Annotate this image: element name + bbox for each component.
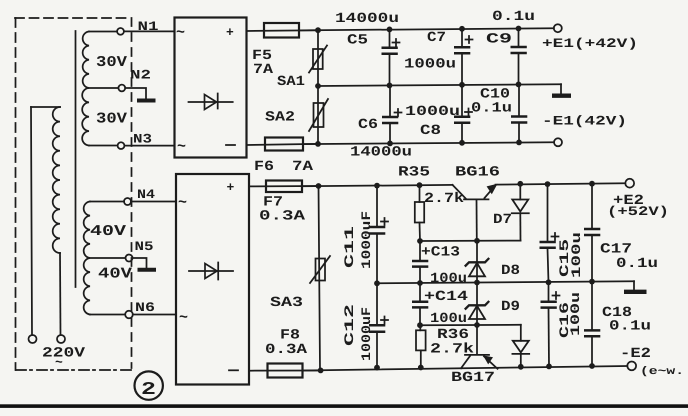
node C6 bottom bbox=[387, 141, 393, 147]
node C8 bottom bbox=[459, 140, 465, 146]
svg-text:0.3A: 0.3A bbox=[259, 209, 306, 225]
transformer enclosure dashed box bbox=[15, 18, 132, 370]
svg-text:N1: N1 bbox=[138, 19, 159, 34]
svg-text:0.1u: 0.1u bbox=[471, 101, 512, 117]
node F7-SA3 junction bbox=[316, 183, 322, 189]
svg-text:2: 2 bbox=[141, 380, 156, 400]
node C5 top bbox=[387, 27, 393, 33]
node C11 top bbox=[374, 183, 380, 189]
bridge U2 label minus bbox=[229, 369, 238, 371]
fuse F5 bbox=[247, 23, 319, 38]
circled figure number 2 bbox=[135, 371, 163, 400]
bridge U1 label minus bbox=[226, 144, 235, 146]
wire base node row bbox=[420, 240, 521, 242]
capacitor C6 bbox=[382, 85, 402, 143]
node C9 bottom bbox=[516, 82, 522, 88]
svg-text:N5: N5 bbox=[135, 239, 154, 254]
zener diode D9 bbox=[465, 283, 489, 326]
node C15 top bbox=[545, 181, 551, 187]
svg-text:~: ~ bbox=[176, 25, 185, 42]
svg-text:+: + bbox=[226, 25, 234, 40]
fuse F6 bbox=[247, 138, 319, 151]
node R36 bottom bbox=[418, 365, 424, 371]
svg-text:F6: F6 bbox=[254, 159, 274, 175]
svg-text:~: ~ bbox=[179, 310, 188, 327]
fuse F8 bbox=[249, 364, 321, 378]
bridge U1 diode symbol bbox=[189, 94, 233, 110]
varistor SA3 bbox=[310, 186, 330, 370]
node C5 bottom bbox=[387, 83, 393, 89]
bottom page rule bbox=[0, 404, 688, 408]
wire +E2 rail left segment bbox=[302, 185, 453, 186]
fuse F7 bbox=[249, 181, 319, 193]
svg-text:C11: C11 bbox=[342, 226, 357, 268]
svg-text:2.7k: 2.7k bbox=[424, 191, 464, 207]
svg-text:1000uF: 1000uF bbox=[359, 211, 374, 269]
transformer core bbox=[75, 31, 77, 287]
svg-text:1000uF: 1000uF bbox=[359, 307, 374, 361]
svg-text:+C13: +C13 bbox=[421, 244, 460, 260]
svg-text:220V: 220V bbox=[42, 346, 86, 362]
wire lower node row bbox=[420, 324, 521, 326]
svg-text:C7: C7 bbox=[427, 30, 446, 46]
wire N6 to bridge bbox=[133, 314, 176, 316]
node F5-SA1 junction bbox=[315, 27, 321, 33]
svg-text:1000u: 1000u bbox=[405, 104, 460, 120]
resistor R36 bbox=[416, 325, 426, 367]
terminal N6 bbox=[125, 311, 133, 319]
svg-text:-E1(42V): -E1(42V) bbox=[542, 114, 627, 129]
node C7 top bbox=[459, 26, 465, 32]
svg-text:-E2: -E2 bbox=[620, 346, 651, 362]
ground symbol E1 mid bbox=[552, 84, 571, 96]
svg-text:N3: N3 bbox=[133, 132, 152, 147]
svg-text:1000u: 1000u bbox=[404, 57, 456, 73]
transistor BG17 bbox=[461, 325, 498, 369]
svg-text:14000u: 14000u bbox=[350, 145, 412, 161]
svg-text:+C14: +C14 bbox=[424, 289, 468, 305]
ground at N2 bbox=[137, 99, 156, 103]
transformer upper secondary winding 30V+30V bbox=[82, 32, 89, 146]
node R35 top bbox=[417, 182, 423, 188]
wire +E2 rail right segment bbox=[496, 183, 626, 184]
svg-text:+E1(+42V): +E1(+42V) bbox=[542, 36, 638, 51]
node F8-SA3 junction bbox=[318, 368, 324, 374]
capacitor C9 bbox=[511, 28, 527, 84]
wire N2 tap bbox=[89, 87, 118, 89]
node R35-C13 bbox=[417, 238, 423, 244]
node C12 bottom bbox=[374, 365, 380, 371]
svg-text:40V: 40V bbox=[98, 266, 132, 283]
svg-text:C8: C8 bbox=[420, 123, 441, 139]
terminal N3 bbox=[118, 142, 125, 149]
varistor SA1 bbox=[309, 30, 327, 86]
svg-text:~: ~ bbox=[178, 195, 187, 212]
svg-text:C5: C5 bbox=[347, 33, 368, 49]
node C14-R36 bbox=[417, 322, 423, 328]
capacitor C11 bbox=[369, 186, 388, 284]
svg-text:100u: 100u bbox=[568, 292, 583, 336]
svg-text:BG17: BG17 bbox=[451, 370, 495, 386]
wire N5 to ground bbox=[133, 258, 147, 268]
ground symbol E2 mid bbox=[624, 281, 647, 292]
node C7 bottom bbox=[459, 82, 465, 88]
terminal -E2 bbox=[627, 362, 636, 371]
transistor BG16 bbox=[453, 184, 498, 241]
node SA1-SA2 junction bbox=[315, 83, 321, 89]
svg-text:0.1u: 0.1u bbox=[492, 9, 535, 25]
diode D10 unlabeled bbox=[512, 325, 529, 367]
svg-text:~: ~ bbox=[177, 139, 186, 156]
svg-text:C12: C12 bbox=[342, 304, 357, 346]
node C10 bottom bbox=[516, 140, 522, 146]
svg-text:7A: 7A bbox=[253, 62, 274, 78]
capacitor C14 bbox=[412, 283, 428, 325]
node D8-D9 bbox=[474, 280, 480, 286]
node C9 top bbox=[516, 26, 522, 32]
capacitor C13 bbox=[412, 241, 428, 283]
wire -E1 bottom rail bbox=[303, 142, 554, 144]
wire N3 to bridge bbox=[124, 145, 174, 147]
svg-text:0.1u: 0.1u bbox=[609, 319, 651, 335]
node C17 bottom bbox=[589, 279, 595, 285]
wire N1 tap bbox=[89, 31, 117, 33]
terminal +E1 bbox=[554, 24, 562, 32]
svg-text:D9: D9 bbox=[501, 299, 520, 315]
svg-text:(e~w.: (e~w. bbox=[640, 366, 684, 378]
svg-text:100u: 100u bbox=[430, 271, 467, 287]
node D10 bottom bbox=[518, 364, 524, 370]
varistor SA2 bbox=[309, 86, 328, 144]
svg-text:D8: D8 bbox=[501, 263, 520, 279]
svg-text:+: + bbox=[227, 180, 235, 195]
svg-text:C9: C9 bbox=[486, 32, 512, 48]
svg-text:~: ~ bbox=[55, 355, 63, 370]
diode D7 bbox=[512, 184, 529, 241]
terminal N1 bbox=[117, 28, 124, 35]
wire N3 tap bbox=[89, 145, 118, 147]
node SA2 bottom bbox=[315, 141, 321, 147]
svg-text:R35: R35 bbox=[398, 165, 430, 181]
svg-text:D7: D7 bbox=[493, 212, 512, 228]
terminal 220V left bbox=[29, 335, 37, 343]
bridge rectifier U1 box bbox=[175, 18, 247, 158]
svg-text:SA1: SA1 bbox=[277, 74, 305, 90]
svg-text:30V: 30V bbox=[96, 54, 127, 71]
wire N5 tap bbox=[90, 257, 126, 259]
ground at N5 bbox=[138, 268, 157, 272]
wire 0V mid rail lower section bbox=[377, 281, 634, 283]
svg-text:14000u: 14000u bbox=[335, 11, 399, 27]
terminal -E1 bbox=[554, 138, 562, 146]
bridge U2 diode symbol bbox=[189, 263, 233, 280]
terminal 220V right bbox=[57, 335, 65, 343]
svg-text:C6: C6 bbox=[358, 117, 378, 133]
svg-text:7A: 7A bbox=[292, 159, 314, 175]
svg-text:N2: N2 bbox=[130, 68, 151, 83]
zener diode D8 bbox=[465, 241, 489, 283]
node C16 bottom bbox=[546, 364, 552, 370]
terminal N5 bbox=[126, 255, 133, 262]
wire N4 to bridge bbox=[131, 201, 176, 203]
capacitor C15 bbox=[540, 184, 559, 282]
bridge rectifier U2 box bbox=[176, 174, 249, 385]
transformer lower secondary winding 40V+40V bbox=[84, 202, 90, 315]
svg-text:(+52V): (+52V) bbox=[607, 204, 669, 219]
terminal N2 bbox=[118, 85, 125, 92]
terminal N4 bbox=[124, 198, 131, 205]
node BG16 base column bbox=[474, 238, 480, 244]
resistor R35 bbox=[415, 185, 424, 241]
terminal +E2 bbox=[625, 179, 634, 188]
wire N1 to bridge bbox=[124, 30, 175, 32]
node C15 bottom bbox=[546, 279, 552, 285]
wire N2 to ground bbox=[125, 88, 146, 99]
node D7 top bbox=[517, 181, 523, 187]
wire N6 tap bbox=[90, 314, 125, 316]
svg-text:100u: 100u bbox=[569, 232, 584, 278]
capacitor C5 bbox=[382, 29, 400, 85]
svg-text:N4: N4 bbox=[137, 187, 155, 202]
node C17 top bbox=[589, 181, 595, 187]
wire N4 tap bbox=[90, 201, 124, 203]
svg-text:BG16: BG16 bbox=[455, 165, 500, 181]
svg-text:40V: 40V bbox=[90, 223, 126, 240]
capacitor C16 bbox=[541, 282, 560, 366]
wire +E1 top rail bbox=[299, 28, 554, 30]
svg-text:N6: N6 bbox=[135, 300, 155, 315]
transformer T primary winding bbox=[31, 107, 61, 335]
capacitor C8 bbox=[454, 85, 472, 143]
node C13-C14 bbox=[417, 280, 423, 286]
wire 0V mid rail top section bbox=[318, 84, 561, 86]
svg-text:SA2: SA2 bbox=[265, 110, 295, 126]
capacitor C17 bbox=[584, 184, 600, 282]
node C18 bottom bbox=[589, 363, 595, 369]
wire -E2 bottom rail bbox=[304, 366, 627, 371]
node C11-C12 bbox=[374, 280, 380, 286]
capacitor C7 bbox=[454, 29, 473, 85]
node BG17 base column bbox=[474, 322, 480, 328]
svg-text:30V: 30V bbox=[96, 111, 127, 128]
svg-text:0.3A: 0.3A bbox=[265, 342, 308, 358]
capacitor C12 bbox=[369, 283, 388, 367]
capacitor C18 bbox=[584, 282, 600, 366]
capacitor C10 bbox=[511, 84, 527, 142]
svg-text:0.1u: 0.1u bbox=[616, 256, 658, 272]
svg-text:SA3: SA3 bbox=[270, 295, 303, 311]
